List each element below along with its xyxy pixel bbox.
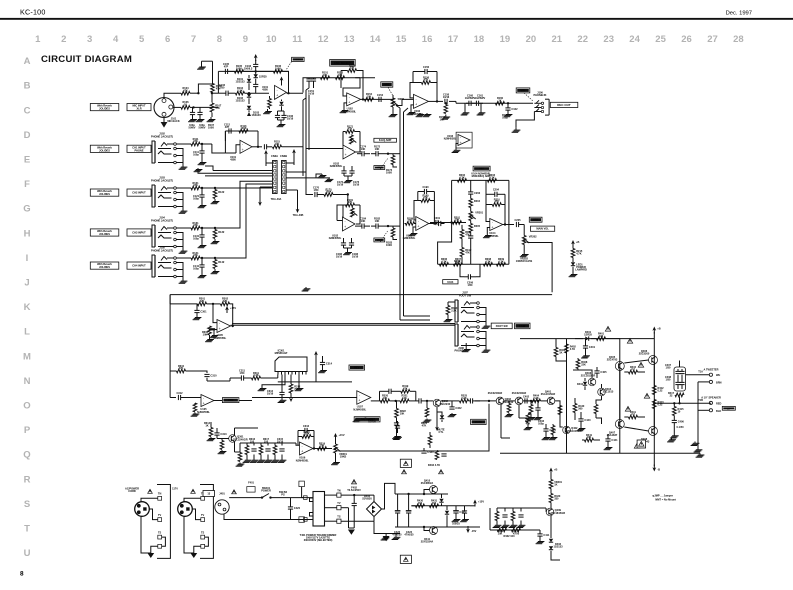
svg-text:10K: 10K (367, 95, 372, 99)
wire jack row5 tip (176, 257, 191, 259)
capacitor C103 supply chain (253, 63, 258, 65)
svg-text:NJM4558L: NJM4558L (329, 236, 342, 240)
wire reg mid rail (411, 505, 470, 507)
svg-text:0.1/50: 0.1/50 (676, 425, 684, 429)
smoothing cap C424 (406, 510, 412, 512)
warning power entry (232, 490, 237, 494)
secondary wire bottom (341, 520, 374, 522)
svg-text:2.2K: 2.2K (461, 396, 467, 400)
svg-text:FOOT SW: FOOT SW (496, 324, 508, 328)
terminal T1B tweeter minus (709, 380, 712, 383)
resistor R113 fb (239, 129, 248, 133)
coupling capacitor C160 (468, 101, 470, 106)
ground rail right 1 (671, 439, 673, 440)
capacitor C105 feedback (224, 69, 226, 74)
connector CN3A (273, 161, 278, 194)
ground C101 (192, 115, 194, 117)
resistor R215 LED (571, 249, 575, 258)
svg-text:7: 7 (191, 34, 196, 45)
svg-text:220K: 220K (303, 432, 309, 436)
label box channel note row3 (90, 189, 119, 196)
node B to bus (387, 225, 389, 227)
svg-text:L: L (24, 327, 30, 338)
svg-text:VR201: VR201 (475, 211, 483, 215)
svg-text:47K: 47K (183, 88, 188, 92)
svg-text:C441: C441 (611, 438, 618, 442)
resistor R104 series (236, 91, 245, 95)
transistor Q407 driver bottom (615, 420, 624, 429)
ground zobel (673, 423, 675, 434)
svg-text:4580: 4580 (230, 158, 236, 162)
node row2 (201, 143, 203, 145)
wire bias lower rail (490, 529, 540, 531)
zener D406 (446, 506, 448, 510)
svg-text:+: + (276, 94, 278, 98)
label box REV BALANCE (354, 417, 380, 422)
svg-text:10K: 10K (203, 333, 208, 337)
wire Q301 emitter down (234, 442, 236, 452)
svg-text:-15V: -15V (471, 529, 477, 533)
capacitor C314 supply (320, 361, 325, 363)
svg-text:1K: 1K (205, 424, 208, 428)
ground C440 (580, 427, 582, 429)
resistor R104 xlr top (181, 91, 190, 95)
supply arrow sum amp (226, 309, 228, 313)
wire mic out to selector bus (303, 78, 375, 93)
dot diode node (248, 92, 250, 94)
svg-text:47P: 47P (225, 125, 230, 129)
svg-text:47K: 47K (179, 366, 184, 370)
resistor R301 sum (198, 302, 207, 306)
capacitor C404 (543, 428, 548, 430)
svg-text:U: U (24, 548, 31, 559)
capacitor C104 supply chain (253, 83, 258, 85)
svg-text:14: 14 (370, 34, 381, 45)
wire bias bottom (596, 418, 602, 424)
svg-text:47K: 47K (494, 200, 499, 204)
op-amp U101b ch1 pre (240, 140, 252, 153)
wire pa input (523, 400, 536, 402)
svg-text:MIC/JACK: MIC/JACK (167, 119, 179, 123)
svg-text:100p: 100p (193, 153, 199, 157)
capacitor C321 series (418, 398, 420, 403)
resistor R314 base bias upper (209, 428, 213, 437)
bridge minus wire (374, 521, 400, 533)
capacitor C421 sec (353, 495, 355, 503)
svg-text:2.2K: 2.2K (451, 309, 457, 313)
wire loop into return amp (170, 397, 176, 399)
resistor R405 bias to gnd (529, 405, 533, 414)
wire aux line (232, 323, 455, 325)
feedback bracket resistor R319b (401, 390, 410, 394)
U104 feedback resistor R210 (492, 203, 501, 207)
svg-text:REC OUT: REC OUT (557, 103, 571, 107)
resistor R209 bottom (497, 263, 506, 267)
svg-text:C406: C406 (678, 419, 685, 423)
svg-text:10/16: 10/16 (337, 183, 344, 187)
capacitor C184 outB (361, 224, 363, 229)
transformer primary squares (304, 496, 308, 500)
svg-text:2SC2240: 2SC2240 (439, 402, 450, 406)
svg-text:100p: 100p (193, 237, 199, 241)
svg-text:10/16: 10/16 (443, 95, 450, 99)
svg-text:1/50: 1/50 (666, 366, 672, 370)
svg-text:MAIN VOL: MAIN VOL (536, 227, 549, 231)
svg-text:1SR35: 1SR35 (259, 75, 267, 79)
capacitor C420 across mains (288, 506, 293, 508)
svg-text:REV: REV (354, 366, 360, 370)
svg-text:S: S (24, 499, 30, 510)
wire Q304 bias down (518, 405, 520, 418)
IC301 reverb driver block (275, 357, 307, 372)
svg-text:KC-100: KC-100 (20, 8, 46, 17)
wire strip B to opamp (333, 194, 348, 196)
svg-text:D: D (24, 130, 31, 141)
op-amp U103a EQ amp (414, 94, 429, 108)
svg-text:26: 26 (681, 34, 692, 45)
tone mid column capacitor C202 (468, 191, 473, 193)
capacitor C183 below opamp B (349, 242, 354, 244)
svg-text:4.7K: 4.7K (455, 260, 461, 264)
svg-text:8: 8 (20, 571, 24, 578)
svg-text:2SA1534A: 2SA1534A (421, 540, 434, 544)
bias rc cluster (495, 512, 499, 521)
svg-text:100K: 100K (386, 243, 392, 247)
svg-text:U104: U104 (447, 280, 454, 284)
svg-text:TN: TN (158, 492, 162, 496)
resistor R152 bus (336, 76, 345, 80)
svg-text:B: B (24, 81, 31, 92)
warning in HOT box (404, 461, 409, 465)
power amp top rail (520, 338, 654, 340)
svg-text:C310: C310 (210, 373, 217, 377)
capacitor C101 shunt (190, 111, 195, 113)
pin wire to left ground (262, 375, 285, 387)
label box channel note row4 (90, 229, 119, 236)
svg-text:TV: TV (201, 513, 205, 517)
svg-text:1/50: 1/50 (314, 188, 320, 192)
capacitor C170 strip B in (314, 192, 316, 197)
feedback rail row2 (225, 130, 258, 132)
warning triangle emitter res (644, 393, 649, 398)
wire return bus (697, 382, 699, 448)
resistor R326 under Q303 (507, 404, 511, 413)
wire Q302 to node2 (441, 400, 456, 402)
wire strip B input route (347, 195, 349, 206)
svg-text:+: + (358, 399, 360, 403)
wire F402 stub (301, 487, 303, 498)
svg-text:20: 20 (526, 34, 537, 45)
svg-text:JOLIDES: JOLIDES (99, 232, 110, 236)
wire bias chain (601, 384, 603, 388)
resistor R420 bias (549, 494, 553, 503)
dashed leader B (380, 231, 388, 242)
svg-text:10K: 10K (375, 147, 380, 151)
rail vertical V3 +B (653, 332, 655, 466)
resistor R440 mid (573, 404, 577, 413)
supply arrow IC301 (315, 354, 317, 358)
resistor R323 shunt (425, 408, 429, 417)
U102 output wire (361, 98, 388, 100)
ground R107s (211, 113, 213, 118)
bus stub left 1 (205, 166, 213, 171)
arrow below R312 (290, 393, 292, 397)
rail vertical V1 (566, 339, 568, 454)
bus wire 1 (213, 170, 272, 172)
svg-text:VR2: VR2 (533, 218, 539, 222)
svg-text:560: 560 (578, 407, 583, 411)
capacitor C205 out (515, 222, 517, 227)
label box channel note row2 (90, 145, 119, 152)
wire tone input (430, 222, 443, 224)
tone top rail (452, 179, 509, 181)
ground below node chain (396, 425, 398, 434)
wire U105 fb (230, 304, 233, 326)
svg-text:JOLIDES: JOLIDES (99, 107, 110, 111)
label box CH2 INPUT (127, 189, 151, 196)
resistor R203 top (488, 179, 497, 183)
wire into mute 1 (424, 400, 433, 402)
svg-text:1SS133: 1SS133 (235, 99, 245, 103)
wire Q410 collector (424, 490, 430, 495)
resistor R206 bottom (440, 263, 449, 267)
svg-text:MUTE: MUTE (475, 420, 483, 424)
bridge rectifier D404 (373, 495, 375, 501)
svg-text:8: 8 (217, 34, 222, 45)
svg-text:+: + (460, 141, 462, 145)
svg-text:4.7K: 4.7K (459, 176, 465, 180)
op-amp U108 post eq (416, 217, 429, 231)
svg-text:1/50: 1/50 (240, 371, 246, 375)
transistor Q409 bias servo (546, 508, 554, 516)
svg-text:1SS133: 1SS133 (251, 113, 261, 117)
capacitor C322b below (394, 422, 399, 424)
wire link A join aux (400, 319, 430, 321)
svg-text:18: 18 (474, 34, 485, 45)
svg-text:15: 15 (396, 34, 407, 45)
ground chassis minus (383, 536, 390, 541)
svg-text:PS: PS (281, 492, 285, 496)
U108 feedback capacitor C190 (423, 189, 425, 194)
resistor R154 (365, 98, 374, 102)
jack J107 send (457, 300, 459, 322)
ground rail caps (277, 118, 279, 120)
wire Q303 control down (500, 405, 502, 438)
svg-text:S2VB20: S2VB20 (362, 497, 372, 501)
dot feedback chain2 (255, 70, 257, 72)
svg-text:2SC2240GR: 2SC2240GR (488, 391, 503, 395)
warning triangle rail (605, 326, 610, 331)
capacitor C311 input (240, 375, 242, 380)
svg-text:47K: 47K (526, 422, 531, 426)
pin resistor center (290, 375, 292, 385)
svg-text:FOOT SW: FOOT SW (459, 294, 472, 298)
svg-text:CN3B: CN3B (280, 154, 287, 158)
svg-text:24: 24 (629, 34, 640, 45)
ground rail right 2 (694, 442, 696, 444)
svg-text:F401: F401 (248, 481, 254, 485)
capacitor C151 bus (306, 78, 311, 80)
resistor R312 return bias (193, 403, 197, 412)
resistor R303 under U105 (208, 326, 212, 335)
vertical RC below node A (391, 156, 395, 165)
svg-text:T2.5A/250V: T2.5A/250V (347, 488, 361, 492)
capacitor C401 bypass (583, 345, 588, 347)
mix resistor R192 down (460, 248, 464, 257)
svg-text:T1B: T1B (698, 398, 703, 402)
svg-text:C162: C162 (511, 107, 518, 111)
transistor Q406 output top (649, 356, 658, 365)
header rule (0, 18, 793, 20)
feedback bracket capacitor C320 (388, 389, 390, 394)
warning in bottom box (404, 557, 409, 561)
svg-text:NJM4558L: NJM4558L (353, 408, 366, 412)
svg-text:10/16: 10/16 (287, 117, 294, 121)
svg-text:E: E (24, 155, 30, 166)
ground R405 (530, 414, 532, 417)
capacitor C185 outB (375, 224, 377, 229)
wire bus vertical joins (306, 88, 309, 90)
transistor Q401 input (547, 397, 555, 405)
wire aux into J108 (450, 323, 455, 325)
jack J104 CH3 (154, 225, 156, 247)
crossover bracket (674, 367, 686, 391)
wire reverb out right (339, 404, 490, 451)
svg-text:R205: R205 (474, 224, 481, 228)
secondary wire mid centertap (341, 507, 349, 509)
label box IN JACKS (531, 226, 555, 231)
svg-text:47K: 47K (193, 223, 198, 227)
label box CH4 INPUT (127, 262, 151, 269)
svg-text:10: 10 (266, 34, 277, 45)
svg-text:C420: C420 (294, 506, 301, 510)
long wire signal loop top (170, 294, 552, 296)
wire row5 to bus (201, 257, 203, 259)
svg-text:4.7K: 4.7K (441, 260, 447, 264)
capacitor C174 outA (361, 151, 363, 156)
wire CN3B out row194 (286, 172, 313, 195)
svg-text:22K: 22K (200, 299, 205, 303)
svg-text:NJM4558L: NJM4558L (403, 236, 416, 240)
capacitor C441 mid (605, 438, 610, 440)
U104 output wire (503, 224, 514, 226)
svg-text:1SR35: 1SR35 (368, 420, 376, 424)
U103 feedback capacitor C156 (424, 69, 426, 74)
capacitor C322 shunt (449, 406, 454, 408)
crossover capacitor chain 1 (675, 370, 680, 372)
ground bus stub (197, 168, 199, 170)
svg-text:I: I (26, 253, 29, 264)
U108 output wire (429, 223, 437, 225)
diode chain D101 lower (247, 94, 251, 97)
ground R327 (527, 423, 529, 427)
svg-text:T: T (24, 524, 30, 535)
wire tone left bottom leg (438, 223, 452, 265)
wire main line to REC OUT (456, 102, 533, 104)
U104 feedback capacitor C204 (494, 192, 496, 197)
bridge plus out (382, 483, 396, 509)
capacitor C312 return in (177, 395, 179, 400)
warning triangle R411 (625, 406, 630, 411)
wire left chain (186, 371, 208, 373)
diode chain D101 upper (248, 75, 250, 78)
resistor R402 drop (565, 344, 569, 353)
zobel resistor R415 (673, 407, 677, 416)
jack J103 CH2 (154, 185, 156, 207)
transistor Q404 bias (598, 388, 606, 396)
svg-text:A TWEETER: A TWEETER (704, 368, 719, 372)
svg-text:5: 5 (139, 34, 145, 45)
terminal T2A woofer plus (709, 401, 712, 404)
vertical RC below node B (391, 228, 395, 237)
wire woofer return (698, 409, 709, 411)
svg-text:4.7K: 4.7K (498, 260, 504, 264)
svg-text:VR202: VR202 (529, 235, 537, 239)
svg-text:R422 100: R422 100 (503, 534, 515, 538)
svg-text:100K: 100K (325, 190, 331, 194)
svg-text:2SC2240GR: 2SC2240GR (233, 438, 248, 442)
capacitor C191 out (438, 221, 440, 226)
U103 feedback resistor R156 (422, 81, 431, 85)
resistor R441 mid (585, 438, 594, 442)
wire U102 feedback leg (340, 71, 342, 89)
cap C426 reg out (462, 510, 467, 512)
svg-text:10K: 10K (323, 73, 328, 77)
svg-text:PHONE JACK(ST): PHONE JACK(ST) (151, 249, 173, 253)
svg-text:10/16: 10/16 (336, 255, 343, 259)
feedback rail row1 (218, 70, 288, 72)
warning transformer (352, 480, 357, 484)
supply arrow +B top (653, 330, 655, 334)
svg-text:M65831AP: M65831AP (275, 351, 288, 355)
op-amp U107a mixer (357, 391, 371, 404)
label box HOT warn (400, 459, 411, 467)
U106 output wire (313, 448, 332, 450)
ground under C131 (201, 237, 203, 243)
capacitor C141 (199, 264, 204, 266)
svg-text:10K: 10K (361, 219, 366, 223)
supply arrow op-amp (281, 80, 283, 84)
ground opamp B caps (343, 245, 345, 248)
resistor R142 shunt (213, 260, 217, 269)
transistor Q405 driver top (615, 362, 624, 371)
svg-text:NJM4558L: NJM4558L (296, 458, 309, 462)
wire link B join aux (404, 315, 431, 317)
U106 feedback resistor R318 (302, 435, 311, 439)
resistor R411 emitter bottom (629, 415, 638, 419)
ferrite bead on sum output (209, 328, 215, 330)
resistor R160 series (496, 102, 505, 106)
capacitor C107 rail (281, 114, 286, 116)
svg-text:JOLIDES: JOLIDES (99, 265, 110, 269)
rail vertical V2 (619, 339, 621, 454)
svg-text:150: 150 (418, 501, 423, 505)
svg-text:100: 100 (599, 334, 604, 338)
svg-text:10K: 10K (275, 142, 280, 146)
capacitor C111 shunt (199, 150, 204, 152)
transistor Q410 regulator +15V (430, 486, 438, 494)
wire bus to U108 (405, 223, 407, 225)
ground LED (572, 267, 574, 272)
svg-text:2SA1015GR: 2SA1015GR (541, 392, 556, 396)
tone mid capacitor C203 (468, 235, 473, 237)
wire primary 1 (302, 497, 304, 499)
capacitor C411 (537, 533, 542, 535)
svg-text:9: 9 (243, 34, 248, 45)
warning reg 2 (439, 470, 444, 474)
tone mid resistor R205 (469, 224, 473, 233)
wire reg rail top (395, 493, 448, 495)
